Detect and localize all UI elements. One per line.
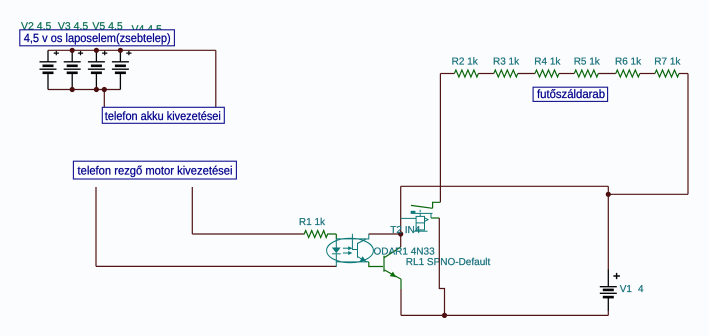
wire: bottom rail tap to akku label [103,90,105,108]
battery V2 [40,50,59,89]
label box: futoszaldarab [533,87,608,101]
opto ellipse [327,238,374,262]
V1 bottom lead [607,297,609,311]
wire: motor left lead down [95,187,97,266]
junction bottom rail tap [102,87,107,92]
wire: heater chain right vertical [687,74,689,195]
relay contact bar [411,212,433,214]
opto LED cathode bar [332,253,341,255]
opto base lead up [352,234,357,250]
opto emitter arrow [360,256,366,261]
opto light arrow 1 [343,247,349,249]
svg-text:R2 1k: R2 1k [452,56,479,67]
wire: chain segment 5 [598,73,616,75]
junction node battery top [606,192,611,197]
relay coil pin row [414,230,428,232]
resistor R6 [616,70,640,77]
wire: long supply horizontal [401,185,609,187]
wire: T2 emitter to bottom rail [400,289,402,315]
svg-text:R6 1k: R6 1k [615,56,642,67]
wire: opto collector to relay node [369,233,401,235]
wire: heater chain left vertical [439,74,441,203]
opto top chord [336,238,367,240]
resistor R7 [655,70,679,77]
wire: right vertical to battery node [608,193,688,195]
wire: contact to bottom rail green jog [431,217,439,219]
wire: battery bank bottom rail [48,89,120,91]
opto LED anode lead [335,239,337,248]
V1 top lead [607,194,609,270]
svg-text:RL1 SPNO-Default: RL1 SPNO-Default [406,257,491,268]
battery V3 [64,50,83,89]
wire: top rail drop to akku label [215,50,217,107]
junction top rail at V3 [70,48,75,53]
svg-text:R7 1k: R7 1k [654,56,681,67]
svg-text:R1 1k: R1 1k [299,217,326,228]
resistor R4 [535,70,559,77]
relay coil divider [416,222,424,224]
battery V1 [600,194,620,315]
svg-text:ODAR1 4N33: ODAR1 4N33 [374,246,436,257]
V1 plate 1 [600,286,617,288]
relay coil box [416,216,424,230]
wire: battery bank top rail [48,49,216,51]
wire: bottom rail [401,314,608,316]
T2 emitter arrow [390,272,397,278]
svg-text:telefon akku kivezetései: telefon akku kivezetései [105,109,221,123]
svg-text:telefon rezgő motor kivezetése: telefon rezgő motor kivezetései [78,164,233,178]
relay fixed contact square [411,211,416,214]
wire: opto emitter to T2 base [369,262,383,267]
opto bottom chord [336,261,367,263]
wire: T2 emitter down [400,279,402,289]
wire: motor to R1 [192,233,303,235]
label box: telefon rezgo motor kivezetesei [73,161,236,179]
opto emitter lead [358,257,369,262]
svg-text:R4 1k: R4 1k [534,56,561,67]
label box: telefon akku kivezetesei [102,107,224,123]
junction bottom rail at relay [442,313,447,318]
svg-text:futőszáldarab: futőszáldarab [537,87,605,101]
wire: blade to chain (green jog) [433,202,441,208]
junction bottom rail at V5 [94,87,99,92]
relay blade (green) [411,205,433,208]
opto LED triangle [332,248,341,254]
V1 plate 2 [603,289,614,292]
label box: 4,5 v os laposelem(zsebtelep) [20,30,175,46]
relay coil left pin [401,217,416,219]
opto light arrow 2 [343,252,349,254]
opto collector lead [358,234,369,244]
relay coil triangle [425,218,429,222]
resistor R1 [304,231,337,238]
relay RL1 [401,205,433,231]
resistor R3 [494,70,518,77]
opto LED cathode lead [335,254,337,267]
svg-text:R3 1k: R3 1k [493,56,520,67]
wire: supply step down at battery [607,186,609,194]
wire: chain segment 7 [679,73,688,75]
relay link tick 1 [419,210,421,212]
junction bottom rail at V3 [70,87,75,92]
T2 base bar [383,256,385,272]
optocoupler ODAR1 4N33 [327,234,374,267]
battery V4 [112,50,132,89]
svg-text:R5 1k: R5 1k [574,56,601,67]
junction node opto/relay [398,231,403,236]
opto phototransistor base bar [357,243,359,258]
wire: chain segment 1 [440,73,454,75]
wire: supply vertical above relay [400,186,402,234]
wire: chain segment 6 [640,73,655,75]
svg-text:4,5 v os laposelem(zsebtelep): 4,5 v os laposelem(zsebtelep) [24,31,171,45]
relay contact right drop [430,213,432,218]
wire: chain segment 4 [559,73,574,75]
wire: relay down vertical [439,218,444,315]
wire: T2 collector up to node [400,234,402,247]
junction top rail at V5 [94,48,99,53]
V1 plus sign [613,273,620,279]
V1 plate 3 [600,292,617,294]
wire: chain segment 2 [478,73,493,75]
wire: R1 to opto anode [335,234,337,239]
resistor R2 [454,70,478,77]
wire: motor right lead down [191,187,193,234]
V1 plate 4 [603,296,614,299]
battery V5 [88,50,107,89]
transistor T2 [384,247,401,279]
wire: motor bottom run to opto cathode [96,265,337,267]
T2 emitter diagonal [385,270,402,279]
resistor R5 [574,70,598,77]
svg-text:V1: V1 [620,284,633,295]
wire: chain segment 3 [518,73,535,75]
relay link tick 2 [419,214,421,217]
T2 collector diagonal [385,247,401,258]
junction top rail at V4 [118,48,123,53]
svg-text:4: 4 [638,284,644,295]
